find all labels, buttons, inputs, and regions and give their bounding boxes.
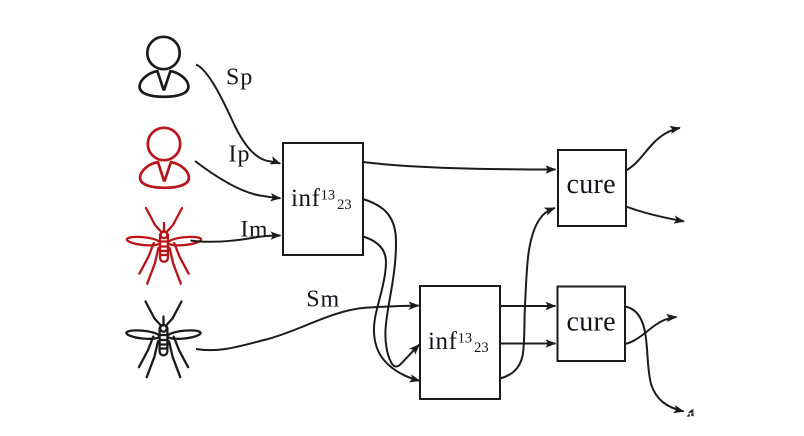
wire inf1 to cure1 upper (arrow) [363, 162, 556, 170]
wire cure1 output down-right (arrow) [626, 207, 684, 222]
wire cure1 output up-right (arrow) [626, 128, 680, 171]
wire cure2 output long S down-right (arrow) [625, 307, 684, 412]
svg-text:cure: cure [567, 169, 616, 200]
person icon Ip (infected person, red) [140, 128, 189, 188]
person icon Sp (susceptible person, black) [140, 37, 189, 97]
box cure1 [558, 150, 626, 226]
wire Sm to inf2 top port (arrow) [196, 306, 419, 351]
wire inf1 upper output to inf2 middle port (arrow, U-hook curve) [363, 199, 419, 367]
svg-text:inf1323: inf1323 [428, 328, 489, 356]
wire inf2 to cure2 lower (arrow) [500, 343, 556, 345]
box cure2 [558, 287, 626, 362]
mosquito icon Sm (susceptible mosquito, black) [126, 302, 201, 378]
box inf1 [283, 143, 363, 255]
wire inf2 bottom to cure1 lower port (arrow, long curve up) [500, 208, 555, 379]
wire Im to inf1 (arrow) [191, 236, 281, 242]
wire Sp to inf1 (arrow) [196, 65, 280, 164]
wire Ip to inf1 (arrow) [195, 161, 281, 198]
mosquito icon Im (infected mosquito, red) [126, 208, 201, 284]
svg-text:inf1323: inf1323 [291, 185, 352, 213]
box inf2 [420, 286, 500, 399]
wire cure2 output up-right (arrow) [625, 317, 677, 344]
wire inf2 to cure2 upper (arrow) [500, 305, 556, 307]
wire inf1 lower output to inf2 bottom port (arrow, bowed-left curve) [363, 237, 420, 381]
svg-text:cure: cure [567, 306, 616, 337]
svg-text:Sm: Sm [306, 287, 340, 313]
artifact mark bottom right [687, 409, 694, 417]
svg-text:Sp: Sp [226, 65, 253, 91]
